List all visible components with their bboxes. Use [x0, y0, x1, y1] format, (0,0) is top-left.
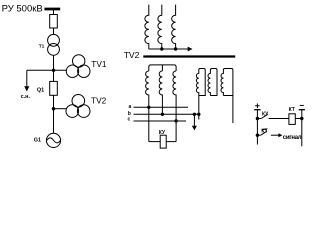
TV2 primary winding phase B — [158, 5, 162, 49]
wire bus to breaker — [53, 10, 55, 15]
aux winding 1 — [196, 69, 205, 120]
svg-text:TV2: TV2 — [91, 96, 107, 106]
secondary winding a — [146, 71, 149, 142]
node b — [161, 113, 164, 116]
voltage transformer TV2 — [72, 95, 85, 108]
wire U bottom right — [166, 141, 176, 143]
wire coil to minus rail — [295, 118, 302, 120]
aux winding 2 — [208, 69, 217, 96]
core line TV2 — [143, 55, 235, 57]
node neutral B — [160, 47, 163, 50]
terminal minus — [300, 104, 304, 106]
svg-text:КУ: КУ — [159, 130, 166, 136]
node neutral C — [174, 47, 177, 50]
svg-text:с.н.: с.н. — [21, 94, 31, 100]
svg-text:сигнал: сигнал — [283, 135, 302, 141]
transformer T1 — [48, 34, 60, 46]
secondary winding b — [159, 71, 162, 114]
node coil minus — [300, 117, 303, 120]
wire breaker to T1 — [53, 28, 55, 35]
svg-text:Q1: Q1 — [37, 87, 44, 93]
node junction 2 — [52, 107, 55, 110]
phase line c — [134, 120, 187, 122]
busbar РУ 500кВ — [44, 8, 60, 11]
wire arrow сигнал — [271, 134, 280, 136]
node c — [174, 119, 177, 122]
wire T1 to Q1 — [53, 55, 55, 81]
generator G1 — [46, 133, 60, 147]
rail plus — [256, 110, 258, 145]
svg-text:G1: G1 — [34, 137, 41, 143]
secondary winding c — [173, 71, 176, 142]
svg-text:КТ: КТ — [261, 129, 267, 135]
device КУ — [160, 135, 166, 148]
svg-text:РУ 500кВ: РУ 500кВ — [2, 3, 43, 14]
svg-text:Т1: Т1 — [39, 43, 45, 49]
wire to с.н. and TV1 — [27, 69, 67, 71]
svg-text:с: с — [128, 117, 131, 123]
contact КТ timed — [261, 131, 267, 135]
svg-text:КУ: КУ — [262, 111, 269, 117]
svg-text:TV2: TV2 — [124, 50, 140, 60]
TV2 primary winding phase A — [145, 5, 149, 49]
node rung2 — [256, 134, 259, 137]
node junction 1 — [52, 69, 55, 72]
breaker Q (upper) — [50, 15, 58, 29]
svg-text:а: а — [129, 104, 132, 110]
wire rung1 right — [269, 118, 289, 120]
node a — [147, 106, 150, 109]
node b end — [197, 113, 200, 116]
relay coil КТ — [289, 114, 295, 125]
node ground tap — [193, 113, 196, 116]
wire rung2 left — [257, 134, 260, 136]
wire star mid drop — [161, 65, 163, 71]
svg-text:КТ: КТ — [289, 107, 295, 113]
wire primary neutral connector — [149, 48, 188, 50]
wire to TV2 — [54, 108, 67, 110]
wire rung1 left — [257, 118, 261, 120]
wire ground drop — [193, 114, 195, 126]
voltage transformer TV1 — [73, 55, 85, 67]
arrow с.н. — [24, 86, 29, 91]
wire Q1 to G1 — [53, 95, 55, 133]
svg-text:TV1: TV1 — [91, 59, 107, 69]
terminal plus — [255, 104, 260, 109]
rail minus — [301, 110, 303, 147]
phase line a — [134, 106, 189, 108]
phase line b — [134, 113, 199, 115]
TV2 primary winding phase C — [172, 5, 176, 49]
arrow neutral out — [188, 47, 193, 52]
node rung1 — [256, 117, 259, 120]
aux winding 3 — [221, 69, 233, 124]
breaker Q1 — [50, 81, 58, 95]
arrow ground — [192, 126, 197, 131]
wire U bottom left — [149, 141, 160, 143]
contact КУ — [261, 114, 268, 118]
main secondary star rail — [149, 65, 176, 71]
wire с.н. drop — [26, 70, 28, 86]
